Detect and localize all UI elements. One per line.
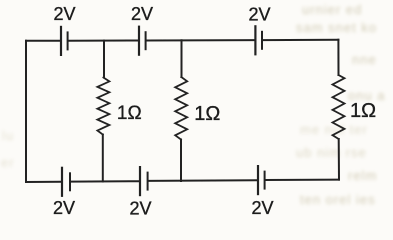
svg-text:2V: 2V xyxy=(248,5,270,25)
svg-text:1Ω: 1Ω xyxy=(350,100,376,122)
svg-text:2V: 2V xyxy=(53,4,75,24)
svg-text:2V: 2V xyxy=(131,4,153,24)
svg-text:2V: 2V xyxy=(53,198,75,218)
svg-text:1Ω: 1Ω xyxy=(117,103,142,124)
svg-text:2V: 2V xyxy=(251,198,273,218)
svg-text:2V: 2V xyxy=(129,199,151,219)
svg-text:1Ω: 1Ω xyxy=(194,103,220,125)
